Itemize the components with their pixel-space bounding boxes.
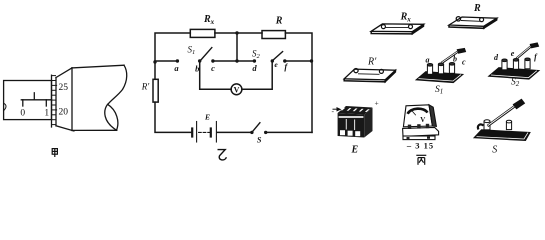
thimble cylinder top edge	[72, 65, 124, 68]
svg-text:b: b	[453, 55, 457, 64]
svg-text:V: V	[234, 85, 240, 94]
svg-text:0: 0	[20, 108, 25, 118]
thimble cylinder left edge	[71, 68, 73, 131]
battery cell 2 short plate	[210, 129, 212, 137]
node a	[176, 59, 179, 62]
node d	[253, 59, 256, 62]
svg-text:– 3 15: – 3 15	[406, 140, 434, 150]
micrometer sleeve break notch	[4, 103, 6, 110]
wire switch S to bottom right	[266, 131, 312, 133]
svg-text:a: a	[426, 56, 430, 65]
wire junction drop	[236, 33, 238, 61]
panel label jia (甲) drawn strokes	[52, 149, 57, 157]
wire a branch	[155, 60, 177, 62]
battery E pictorial	[338, 106, 373, 138]
battery cell 2 long plate	[215, 122, 217, 143]
svg-text:c: c	[211, 63, 215, 73]
micrometer main scale datum line	[21, 99, 51, 101]
svg-text:Rx: Rx	[203, 14, 215, 26]
svg-text:+: +	[375, 99, 379, 108]
node c	[211, 59, 214, 62]
svg-text:a: a	[174, 63, 179, 73]
node b	[198, 59, 201, 62]
panel label bing (丙) drawn strokes	[416, 155, 426, 165]
svg-text:20: 20	[59, 108, 69, 118]
svg-text:e: e	[511, 49, 515, 58]
svg-text:b: b	[195, 64, 199, 74]
wire top left	[155, 33, 190, 62]
svg-text:e: e	[274, 60, 278, 69]
svg-text:E: E	[204, 113, 210, 122]
svg-text:S1: S1	[188, 45, 196, 57]
resistor R' box	[153, 79, 158, 102]
board R' pictorial	[344, 69, 395, 82]
main scale tick 1	[45, 100, 47, 106]
wire Rx to R	[215, 32, 262, 34]
thimble cylinder bottom edge	[73, 129, 117, 131]
svg-text:E: E	[350, 145, 358, 156]
node f	[283, 59, 286, 62]
thimble scale edge left	[51, 75, 53, 127]
resistor R box	[262, 31, 285, 39]
main scale tick 0	[22, 100, 24, 106]
switch S1 blade	[200, 48, 212, 61]
node switch S right	[264, 131, 267, 134]
node switch S left	[250, 131, 253, 134]
board R pictorial	[449, 17, 497, 29]
svg-text:S2: S2	[511, 77, 520, 88]
node e	[271, 59, 274, 62]
battery dashed middle	[199, 131, 210, 133]
svg-text:f: f	[534, 53, 538, 62]
voltmeter V circle	[231, 84, 242, 95]
wire battery to switch S	[217, 131, 252, 133]
micrometer sleeve body	[4, 81, 52, 120]
svg-text:R′: R′	[141, 82, 150, 92]
svg-text:S: S	[492, 145, 497, 156]
svg-text:c: c	[462, 57, 466, 66]
node left junction	[153, 60, 156, 63]
svg-text:V: V	[420, 116, 425, 124]
svg-text:d: d	[252, 63, 257, 73]
switch S1 pictorial	[416, 48, 466, 83]
wire voltmeter branch left	[200, 61, 232, 89]
wire left vertical with R'	[154, 62, 156, 79]
switch S blade	[252, 123, 260, 133]
wire R to top right corner	[285, 33, 312, 132]
svg-text:25: 25	[59, 83, 69, 93]
svg-text:R: R	[473, 3, 481, 14]
node right junction	[310, 59, 313, 62]
svg-text:1: 1	[44, 108, 49, 118]
svg-text:R: R	[275, 16, 283, 27]
arrow marker at E	[333, 108, 341, 111]
svg-text:Rx: Rx	[400, 11, 412, 23]
wire voltmeter branch right	[242, 61, 272, 89]
battery cell 1 short plate	[191, 129, 193, 137]
svg-text:S: S	[257, 135, 262, 144]
thimble cylinder break crescent	[105, 104, 118, 130]
svg-text:S1: S1	[435, 85, 443, 96]
svg-text:d: d	[494, 53, 499, 62]
switch S2 pictorial	[489, 42, 540, 79]
main scale half-mm tick	[33, 93, 35, 100]
node top junction	[235, 31, 238, 34]
wire f to right	[285, 60, 312, 62]
thimble cylinder broken far edge	[108, 65, 127, 104]
voltmeter pictorial	[403, 105, 439, 140]
thimble ticks	[52, 76, 57, 125]
svg-text:-: -	[332, 107, 335, 116]
svg-text:f: f	[284, 62, 288, 72]
thimble scale edge right	[55, 78, 57, 126]
wire R' to bottom	[155, 102, 192, 132]
svg-text:R′: R′	[367, 56, 377, 67]
board Rx pictorial	[371, 24, 423, 34]
resistor Rx box	[190, 29, 215, 37]
node junction mid	[235, 59, 238, 62]
switch S pictorial	[474, 99, 530, 141]
svg-text:S2: S2	[252, 48, 261, 60]
panel label yi (乙) drawn strokes	[218, 150, 227, 160]
battery cell 1 long plate	[196, 122, 198, 143]
thimble cone bottom edge	[56, 126, 74, 131]
thimble cone top edge	[56, 68, 72, 78]
switch S2 blade	[272, 52, 282, 61]
wire c to d	[213, 60, 255, 62]
